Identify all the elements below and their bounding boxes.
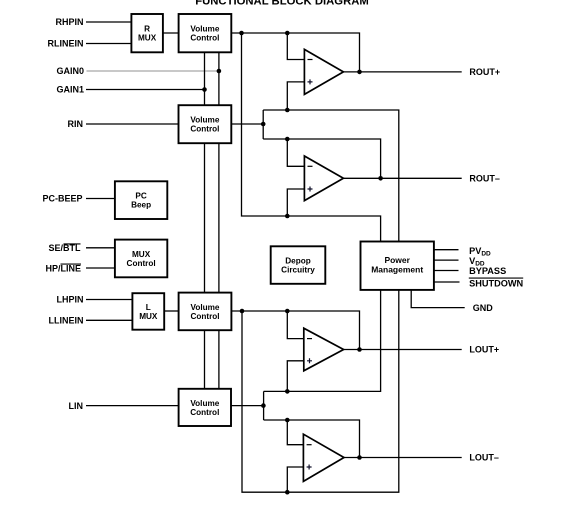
- wire node split vertical x263 lower: [263, 391, 265, 420]
- wire L MUX to volume control: [164, 310, 178, 312]
- volume control VC3: [179, 293, 232, 331]
- junction VC4 out node: [261, 403, 266, 408]
- svg-text:LOUT–: LOUT–: [469, 453, 499, 463]
- wire A4 minus input: [287, 420, 303, 445]
- svg-text:RLINEIN: RLINEIN: [48, 39, 84, 49]
- wire LOUT+ output: [344, 349, 462, 351]
- svg-text:ROUT+: ROUT+: [469, 67, 500, 77]
- svg-text:GND: GND: [473, 303, 494, 313]
- wire gain bus vertical B: [218, 52, 220, 389]
- volume control VC1: [179, 14, 232, 52]
- wire SHUTDOWN stub: [434, 281, 460, 283]
- wire branch x242 down to A4 plus rail: [242, 290, 399, 492]
- wire rail y139 A2 minus feedback: [263, 139, 380, 178]
- junction A1 plus tap: [285, 108, 290, 113]
- wire BYPASS stub: [434, 270, 459, 272]
- overline LINE: [61, 263, 82, 265]
- svg-text:HP/LINE: HP/LINE: [45, 263, 81, 273]
- junction A2 minus tap: [285, 137, 290, 142]
- svg-text:Control: Control: [190, 34, 219, 43]
- wire branch x241 down to A2 plus rail: [242, 33, 381, 242]
- svg-text:Power: Power: [384, 255, 410, 265]
- overline SHUTDOWN: [469, 277, 523, 279]
- op-amp A4: [303, 434, 344, 481]
- wire SE/BTL input: [86, 247, 115, 249]
- junction GAIN0 tap: [217, 69, 222, 74]
- volume control VC4: [179, 389, 231, 426]
- junction VC1 out branch: [239, 31, 244, 36]
- svg-text:Circuitry: Circuitry: [281, 266, 315, 275]
- junction VC2 out node: [261, 122, 266, 127]
- svg-text:LIN: LIN: [69, 401, 84, 411]
- op-amp A1: [304, 49, 343, 94]
- wire R MUX to volume control: [163, 32, 179, 34]
- wire LHPIN input: [86, 299, 132, 301]
- junction A2 plus tap: [285, 214, 290, 219]
- svg-text:ROUT–: ROUT–: [469, 174, 500, 184]
- wire LOUT- output: [344, 457, 462, 459]
- svg-text:R: R: [144, 25, 150, 34]
- junction A1 minus tap: [285, 31, 290, 36]
- op-amp A2: [304, 156, 343, 201]
- wire A2 plus input: [287, 189, 304, 216]
- wire A1 plus input: [287, 82, 304, 110]
- wire VC2 output: [231, 123, 263, 125]
- junction A4 output: [357, 455, 362, 460]
- mux L MUX: [132, 293, 164, 330]
- svg-text:LLINEIN: LLINEIN: [49, 316, 84, 326]
- wire rail y420 A4 minus feedback: [264, 420, 360, 458]
- svg-text:MUX: MUX: [139, 312, 158, 321]
- volume control VC2: [179, 105, 232, 143]
- wire rail VC3 output to A3 feedback: [231, 311, 359, 350]
- svg-text:Volume: Volume: [190, 399, 219, 408]
- svg-text:MUX: MUX: [138, 34, 157, 43]
- junction A2 feedback on ROUT-: [378, 176, 383, 181]
- svg-text:Volume: Volume: [190, 116, 219, 125]
- mux R1 R MUX: [131, 14, 163, 52]
- svg-text:Beep: Beep: [131, 201, 151, 210]
- wire A4 plus input: [287, 467, 303, 492]
- junction A3 plus tap: [285, 389, 290, 394]
- wire node split vertical x263: [262, 110, 264, 139]
- svg-text:Control: Control: [190, 408, 219, 417]
- svg-text:L: L: [146, 303, 151, 312]
- wire PC-BEEP input: [86, 198, 115, 200]
- svg-text:PC-BEEP: PC-BEEP: [42, 194, 82, 204]
- junction A3 output: [357, 347, 362, 352]
- svg-text:LHPIN: LHPIN: [57, 295, 84, 305]
- svg-text:GAIN1: GAIN1: [56, 85, 84, 95]
- wire GAIN0 (gray): [87, 70, 219, 72]
- svg-text:Control: Control: [190, 125, 219, 134]
- svg-text:RIN: RIN: [68, 119, 84, 129]
- wire RLINEIN input: [86, 43, 131, 45]
- svg-text:Volume: Volume: [190, 25, 219, 34]
- junction A3 minus tap: [285, 309, 290, 314]
- junction A4 minus tap: [285, 418, 290, 423]
- svg-text:Control: Control: [127, 259, 156, 268]
- svg-text:SE/BTL: SE/BTL: [48, 243, 81, 253]
- junction A4 plus tap: [285, 490, 290, 495]
- wire VC4 output: [231, 405, 263, 407]
- wire A3 plus input: [287, 361, 304, 392]
- wire ROUT- output: [343, 177, 461, 179]
- junction GAIN1 tap: [202, 87, 207, 92]
- svg-text:FUNCTIONAL BLOCK DIAGRAM: FUNCTIONAL BLOCK DIAGRAM: [195, 0, 369, 8]
- wire HP/LINE input: [86, 267, 115, 269]
- svg-text:MUX: MUX: [132, 250, 151, 259]
- svg-text:Management: Management: [371, 265, 423, 275]
- wire GND: [411, 290, 465, 308]
- svg-text:SHUTDOWN: SHUTDOWN: [469, 279, 523, 289]
- svg-text:Control: Control: [190, 312, 219, 321]
- block Depop Circuitry: [271, 246, 326, 283]
- wire rail y110 to power management: [263, 110, 399, 242]
- wire RHPIN input: [86, 21, 131, 23]
- wire VDD stub: [434, 259, 459, 261]
- junction A1 output: [357, 70, 362, 75]
- wire ROUT+ output: [343, 71, 461, 73]
- svg-text:GAIN0: GAIN0: [56, 66, 84, 76]
- svg-text:Volume: Volume: [191, 303, 220, 312]
- block PC Beep: [115, 181, 167, 219]
- block Power Management: [361, 242, 434, 290]
- svg-text:LOUT+: LOUT+: [469, 345, 499, 355]
- wire LIN input: [86, 405, 179, 407]
- wire RIN input: [86, 123, 179, 125]
- svg-text:RHPIN: RHPIN: [55, 17, 83, 27]
- wire GAIN1: [86, 89, 205, 91]
- wire A3 minus input: [287, 311, 304, 339]
- wire rail y391 to power management: [264, 290, 381, 392]
- wire A2 minus input: [287, 139, 304, 166]
- svg-text:Depop: Depop: [285, 257, 310, 266]
- wire PVDD stub: [434, 249, 459, 251]
- block MUX Control: [115, 240, 167, 278]
- wire gain bus vertical A: [204, 52, 206, 389]
- junction VC3 out branch: [240, 309, 245, 314]
- op-amp A3: [304, 328, 344, 371]
- svg-text:PC: PC: [135, 192, 146, 201]
- svg-text:BYPASS: BYPASS: [469, 266, 506, 276]
- overline BTL: [64, 243, 81, 245]
- wire A1 minus input: [287, 33, 304, 60]
- wire LLINEIN input: [86, 319, 132, 321]
- wire rail VC1 output to A1 feedback: [231, 33, 359, 72]
